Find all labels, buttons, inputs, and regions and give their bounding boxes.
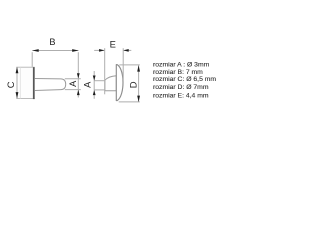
dimension B left arrow bbox=[32, 49, 38, 52]
dimension A1 bottom extension line bbox=[65, 89, 81, 91]
svg-text:rozmiar D: Ø 7mm: rozmiar D: Ø 7mm bbox=[153, 84, 209, 91]
dimension A2 top arrow bbox=[93, 76, 96, 81]
dimension B right arrow bbox=[72, 49, 78, 52]
svg-text:B: B bbox=[49, 37, 55, 47]
dimension D top arrow bbox=[137, 65, 140, 71]
dimension B left extension line bbox=[31, 52, 33, 67]
dimension D line bbox=[138, 66, 140, 102]
dimension A2 top extension line bbox=[94, 80, 105, 82]
dimension E left arrow (points right) bbox=[99, 49, 104, 52]
dimension A1 top arrow bbox=[77, 73, 80, 78]
dimension A1 bottom arrow bbox=[77, 90, 80, 95]
dimension E right arrow (points left) bbox=[123, 49, 128, 52]
dimension C bottom arrow bbox=[16, 92, 19, 98]
dimension E right extension line bbox=[122, 48, 124, 79]
svg-text:A: A bbox=[82, 81, 92, 88]
svg-text:D: D bbox=[128, 81, 139, 88]
dimension D top extension line bbox=[119, 64, 140, 66]
svg-text:rozmiar B: 7 mm: rozmiar B: 7 mm bbox=[153, 69, 203, 76]
dimension B line bbox=[32, 50, 78, 52]
rivet 1 head (flat head, side view) bbox=[16, 67, 34, 98]
dimension E left extension line bbox=[104, 48, 106, 94]
dimension E line right tail bbox=[123, 49, 131, 51]
dimension A2 line bbox=[93, 71, 95, 99]
dimension A1 line (also right extension of B) bbox=[77, 52, 79, 97]
svg-text:rozmiar A : Ø 3mm: rozmiar A : Ø 3mm bbox=[153, 62, 210, 69]
svg-text:rozmiar C: Ø 6,5 mm: rozmiar C: Ø 6,5 mm bbox=[153, 76, 216, 83]
dimension D bottom extension line bbox=[119, 101, 140, 103]
svg-text:A: A bbox=[68, 80, 78, 87]
rivet 1 head right edge (dark face) bbox=[33, 67, 35, 99]
svg-text:C: C bbox=[5, 81, 16, 88]
rivet 1 shaft bbox=[35, 79, 66, 91]
dimension A2 bottom extension line bbox=[94, 89, 105, 91]
svg-text:rozmiar E: 4,4 mm: rozmiar E: 4,4 mm bbox=[153, 92, 209, 99]
dimension D bottom arrow bbox=[137, 96, 140, 102]
dimension E line left tail bbox=[94, 49, 104, 51]
svg-text:E: E bbox=[110, 38, 116, 49]
rivet 2 dome head (flat left face, round right) bbox=[116, 65, 123, 101]
dimension A1 top extension line bbox=[65, 78, 81, 80]
dimension C line bbox=[16, 67, 18, 98]
dimension A2 bottom arrow bbox=[93, 90, 96, 95]
dimension C top arrow bbox=[16, 67, 19, 73]
rivet 2 shaft (tapered) bbox=[105, 76, 116, 91]
